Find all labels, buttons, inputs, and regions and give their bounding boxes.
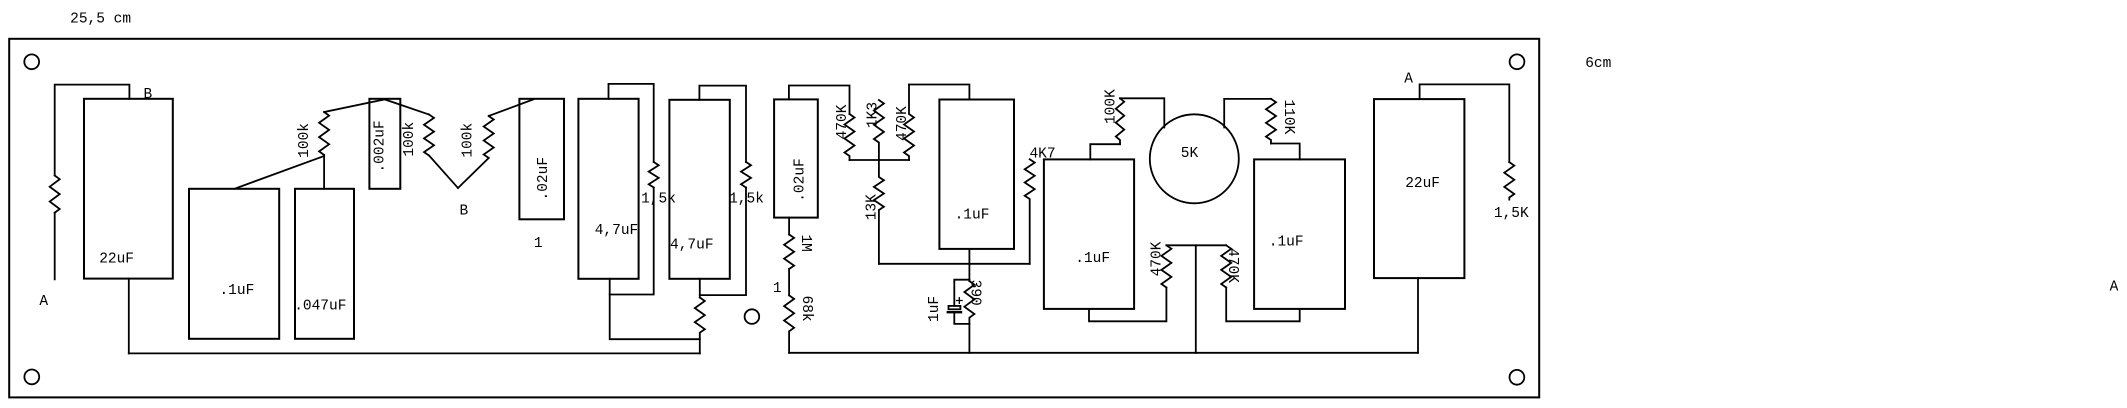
svg-text:470K: 470K <box>895 106 911 141</box>
svg-text:1K3: 1K3 <box>865 102 881 128</box>
svg-text:1uF: 1uF <box>927 296 943 322</box>
svg-text:100k: 100k <box>460 123 476 158</box>
pad hole near 4,7uF <box>745 309 760 324</box>
wire rail between 470K pair <box>1166 244 1226 246</box>
svg-text:.1uF: .1uF <box>1075 251 1110 267</box>
wire diagonal 100k R3 to .02uF C5 top <box>489 99 534 116</box>
wire A-resistor upper lead to node B over 22uF C1 <box>55 85 130 176</box>
resistor 100k R2 <box>424 115 434 156</box>
resistor 390 R11 <box>964 281 974 353</box>
wire 22uF C12 bottom stem <box>1417 278 1419 353</box>
wire .1uF C10 bottom stem to 470K R17 <box>1089 288 1166 322</box>
capacitor .002uF C4 <box>369 99 400 189</box>
wire diagonal 100k R1 to .002uF C4 top peak <box>324 99 385 112</box>
resistor 470K R9 <box>904 85 914 161</box>
svg-text:B: B <box>459 204 468 220</box>
capacitor .1uF C11 <box>1254 159 1345 309</box>
svg-text:470K: 470K <box>1150 241 1166 276</box>
svg-text:100k: 100k <box>402 122 418 157</box>
resistor 13K R10 <box>874 160 884 264</box>
resistor 68k R13 <box>784 295 794 353</box>
wire potentiometer 5K to 110K R16 <box>1224 99 1271 128</box>
wire 1,5k R5 lower lead down and left <box>700 188 746 296</box>
capacitor .1uF C2 <box>189 189 279 339</box>
wire diagonal .002uF C4 top peak to resistor 100k R2 <box>385 99 429 114</box>
wire 4,7uF C6 bottom stem to junction <box>610 279 700 339</box>
capacitor 1uF electrolytic plates <box>949 306 961 309</box>
capacitor .047uF C3 <box>295 189 354 339</box>
resistor 470K R17 <box>1161 245 1171 287</box>
resistor unlabeled R6 below 4,7uF C7 <box>695 298 705 354</box>
svg-text:.1uF: .1uF <box>1269 234 1304 250</box>
resistor 470K R7 <box>845 114 855 160</box>
capacitor 1uF polarity plus sign <box>957 298 963 304</box>
svg-text:.047uF: .047uF <box>294 299 346 315</box>
resistor 100k R3 <box>484 116 494 158</box>
resistor 470K R18 <box>1221 245 1231 287</box>
wire rail under 470K/1K3/470K <box>850 159 910 161</box>
wire left ground bus <box>129 352 700 354</box>
svg-text:100k: 100k <box>297 123 313 158</box>
svg-text:A: A <box>39 294 48 310</box>
mounting hole top-right <box>1510 54 1525 69</box>
svg-text:4K7: 4K7 <box>1029 146 1055 162</box>
mounting hole bottom-right <box>1510 370 1525 385</box>
svg-text:1,5K: 1,5K <box>1494 206 1529 222</box>
svg-text:110K: 110K <box>1280 99 1296 134</box>
capacitor 4,7uF C6 <box>578 99 638 279</box>
wire 4,7uF C6 top jog to resistor 1,5k R4 <box>609 84 654 162</box>
wire .02uF C8 bottom stem <box>788 218 790 235</box>
svg-text:1M: 1M <box>797 234 813 251</box>
svg-text:25,5 cm: 25,5 cm <box>70 12 131 28</box>
capacitor 22uF C1 <box>84 99 173 279</box>
svg-text:22uF: 22uF <box>99 252 134 268</box>
svg-text:22uF: 22uF <box>1405 176 1440 192</box>
wire .02uF C8 top jog to resistor 470K R7 <box>789 86 850 115</box>
wire center stem to ground bus <box>1195 245 1197 352</box>
resistor on node A input wire <box>50 176 60 213</box>
capacitor 1uF electrolytic branch wires <box>954 280 969 324</box>
svg-text:B: B <box>144 87 153 103</box>
svg-text:4,7uF: 4,7uF <box>595 223 639 239</box>
svg-text:13K: 13K <box>864 194 880 220</box>
capacitor .02uF C8 <box>774 99 818 217</box>
svg-text:470K: 470K <box>1224 248 1240 283</box>
capacitor 4,7uF C7 <box>669 100 729 279</box>
resistor 1M R12 <box>784 235 794 270</box>
wire 1,5k R4 lower lead down and left <box>610 188 654 295</box>
svg-text:.02uF: .02uF <box>793 158 809 202</box>
resistor 1,5K R19 <box>1504 162 1514 200</box>
wire 100K R15 top to potentiometer 5K <box>1120 98 1164 127</box>
wire 4,7uF C7 bottom stem <box>699 279 701 298</box>
wire diagonal .1uF C2 top to resistor 100k R1 <box>234 156 324 189</box>
capacitor .1uF C10 <box>1044 159 1134 309</box>
svg-text:.1uF: .1uF <box>955 208 990 224</box>
wire .1uF C10 top jog <box>1090 144 1120 159</box>
mounting hole top-left <box>24 54 39 69</box>
wire .1uF C9 bottom stem <box>968 249 970 281</box>
svg-text:5K: 5K <box>1181 146 1199 162</box>
svg-text:1: 1 <box>773 281 782 297</box>
wire rail 13K to 4K7 <box>879 263 1030 265</box>
wire right ground bus <box>789 352 1418 354</box>
svg-text:A: A <box>2110 280 2119 296</box>
svg-text:.02uF: .02uF <box>536 157 552 201</box>
svg-text:6cm: 6cm <box>1585 56 1611 72</box>
wire 110K R16 bottom jog to .1uF C11 top <box>1271 144 1300 160</box>
svg-text:1,5k: 1,5k <box>729 191 764 207</box>
resistor 100k R1 <box>319 112 329 155</box>
wire 4,7uF C7 top jog to resistor 1,5k R5 <box>699 86 746 162</box>
svg-text:390: 390 <box>967 280 983 306</box>
resistor 1,5k R5 <box>741 162 751 188</box>
svg-text:100K: 100K <box>1104 89 1120 124</box>
resistor 1,5k R4 <box>649 162 659 188</box>
wire top bus to .1uF C9 <box>909 85 969 100</box>
svg-text:.002uF: .002uF <box>372 120 388 172</box>
wire A-resistor lower lead <box>54 213 56 280</box>
wire 22uF C12 top node A to resistor 1,5K R19 <box>1420 84 1510 162</box>
resistor 4K7 R14 <box>1025 159 1035 263</box>
resistor 110K R16 <box>1266 99 1276 144</box>
svg-text:.1uF: .1uF <box>219 283 254 299</box>
capacitor .02uF C5 <box>519 99 564 220</box>
capacitor 22uF C12 <box>1374 99 1464 278</box>
wire diagonal 100k R2 to node B vertex <box>429 156 458 189</box>
wire between 1M and 68k <box>788 269 790 295</box>
resistor 1K3 R8 <box>874 100 884 160</box>
board outline <box>9 39 1539 398</box>
wire diagonal node B vertex to resistor 100k R3 <box>458 158 489 188</box>
mounting hole bottom-left <box>24 370 39 385</box>
svg-text:470K: 470K <box>835 104 851 139</box>
svg-text:A: A <box>1404 71 1413 87</box>
svg-text:4,7uF: 4,7uF <box>670 238 714 254</box>
svg-text:1: 1 <box>534 236 543 252</box>
wire 22uF C1 bottom stem <box>128 279 130 354</box>
wire stem to .047uF C3 top <box>323 155 325 189</box>
svg-text:1,5k: 1,5k <box>641 191 676 207</box>
svg-text:68k: 68k <box>798 296 814 322</box>
resistor 100K R15 <box>1116 98 1124 144</box>
capacitor .1uF C9 <box>939 100 1014 249</box>
wire 470K R18 bottom jog to .1uF C11 bottom <box>1226 288 1300 322</box>
potentiometer 5K <box>1150 114 1239 203</box>
